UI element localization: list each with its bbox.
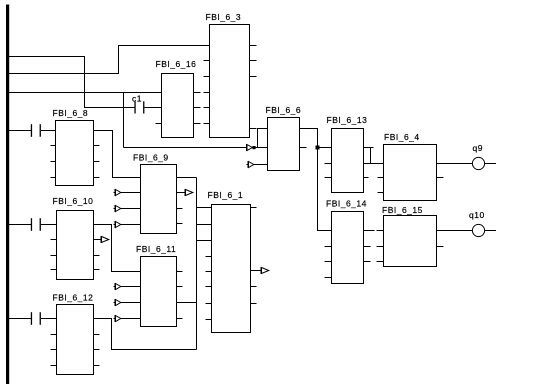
junction dot B bbox=[316, 146, 320, 150]
block FBI_6_9 bbox=[133, 152, 183, 233]
arrow into FBI_6_11 pin4 bbox=[114, 315, 141, 322]
block FBI_6_4 bbox=[378, 132, 444, 200]
capacitor at FBI_6_10 input bbox=[9, 218, 56, 231]
svg-text:FBI_6_3: FBI_6_3 bbox=[206, 12, 242, 22]
rung to FBI_6_1 pin1 bbox=[197, 207, 212, 209]
svg-text:q9: q9 bbox=[473, 143, 483, 153]
junction dot A bbox=[252, 146, 255, 149]
power bus bar bbox=[6, 5, 9, 385]
svg-text:FBI_6_9: FBI_6_9 bbox=[133, 152, 169, 162]
svg-text:FBI_6_12: FBI_6_12 bbox=[53, 293, 94, 303]
svg-text:FBI_6_1: FBI_6_1 bbox=[208, 190, 244, 200]
arrow output FBI_6_1 bbox=[251, 267, 269, 274]
block FBI_6_15 bbox=[377, 205, 444, 267]
svg-text:FBI_6_10: FBI_6_10 bbox=[53, 196, 94, 206]
svg-text:FBI_6_6: FBI_6_6 bbox=[266, 105, 302, 115]
wire FBI_6_9 output to ladder bbox=[177, 177, 197, 179]
output pad q9 bbox=[472, 143, 496, 170]
wire FBI_6_10 output down to FBI_6_11 bbox=[94, 225, 141, 272]
block FBI_6_14 bbox=[325, 199, 375, 284]
block FBI_6_8 bbox=[51, 108, 100, 186]
svg-text:FBI_6_16: FBI_6_16 bbox=[156, 59, 197, 69]
block FBI_6_10 bbox=[51, 196, 100, 280]
wire bus to FBI_6_16 pin1 (net w3) bbox=[9, 92, 161, 94]
long wire to FBI_6_6 input bbox=[124, 147, 248, 149]
block FBI_6_3 bbox=[204, 12, 257, 138]
wire FBI_6_8 output to FBI_6_9 bbox=[94, 131, 141, 178]
block FBI_6_16 bbox=[156, 59, 201, 138]
svg-text:FBI_6_13: FBI_6_13 bbox=[327, 115, 368, 125]
wire FBI_6_15 output to pad q10 bbox=[437, 230, 473, 232]
wire FBI_6_13 output to FBI_6_4 bbox=[364, 148, 384, 164]
block FBI_6_11 bbox=[136, 244, 183, 327]
block FBI_6_6 bbox=[266, 105, 307, 171]
block FBI_6_12 bbox=[51, 293, 100, 375]
wire FBI_6_4 output to pad q9 bbox=[437, 163, 473, 165]
rung to FBI_6_1 pin3 bbox=[197, 240, 212, 242]
svg-text:c1: c1 bbox=[132, 93, 142, 103]
arrow into FBI_6_9 pin2 bbox=[114, 189, 141, 196]
wire w3 branch down to FBI_6_6 long net bbox=[123, 93, 125, 148]
wire FBI_6_11 output to ladder bbox=[177, 302, 197, 304]
arrow into FBI_6_9 pin3 bbox=[114, 205, 141, 212]
capacitor at FBI_6_8 input bbox=[9, 124, 55, 137]
svg-text:FBI_6_8: FBI_6_8 bbox=[53, 108, 89, 118]
capacitor at FBI_6_12 input bbox=[9, 312, 56, 325]
rung to FBI_6_1 pin2 bbox=[197, 224, 212, 226]
arrow into FBI_6_9 pin4 bbox=[114, 221, 141, 228]
output pad q10 bbox=[469, 210, 496, 237]
arrow into FBI_6_11 pin2 bbox=[114, 283, 141, 290]
svg-text:q10: q10 bbox=[469, 210, 485, 220]
wire bus to FBI_6_3 branch (net w1) bbox=[9, 57, 134, 108]
arrow output FBI_6_10 pin2 bbox=[94, 236, 109, 243]
arrow into FBI_6_6 pin3 bbox=[247, 161, 268, 168]
arrow into FBI_6_11 pin3 bbox=[114, 299, 141, 306]
wire FBI_6_6 output down to FBI_6_14 bbox=[300, 129, 332, 231]
svg-text:FBI_6_15: FBI_6_15 bbox=[382, 205, 423, 215]
wire dot to FBI_6_6 pin2 bbox=[256, 147, 268, 149]
wire dot B to FBI_6_13 pin1 bbox=[318, 147, 332, 149]
svg-text:FBI_6_4: FBI_6_4 bbox=[384, 132, 420, 142]
wire FBI_6_12 output down to ladder bottom bbox=[94, 319, 197, 350]
svg-text:FBI_6_11: FBI_6_11 bbox=[136, 244, 176, 254]
arrow on long wire at FBI_6_6 bbox=[245, 144, 252, 151]
arrow output FBI_6_9 pin2 bbox=[177, 189, 193, 196]
wire bus up to FBI_6_3 pin1 (net w2) bbox=[9, 46, 209, 74]
ladder vertical net bbox=[196, 178, 198, 350]
wire junction branch up into FBI_6_6 upper input bbox=[258, 129, 268, 148]
svg-text:FBI_6_14: FBI_6_14 bbox=[326, 199, 367, 209]
block FBI_6_1 bbox=[206, 190, 257, 333]
capacitor c1 bbox=[132, 93, 162, 113]
block FBI_6_13 bbox=[325, 115, 374, 193]
